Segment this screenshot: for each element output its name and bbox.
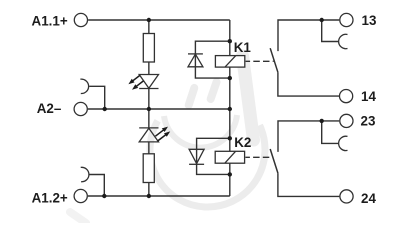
terminal 23 — [340, 114, 353, 127]
svg-text:K1: K1 — [234, 40, 252, 55]
socket contact above A1.2 — [81, 167, 89, 181]
terminal A1.1+ — [74, 13, 87, 26]
actuation link K2 (dashed) — [245, 156, 273, 158]
terminal A1.2+ — [74, 189, 87, 202]
relay coil K2 — [215, 151, 244, 163]
resistor R1 — [143, 34, 154, 63]
wire K2 diode loop — [197, 138, 230, 174]
wire contact K1 bottom lead to terminal 14 — [278, 72, 339, 96]
wire bottom rail A1.2+ — [88, 195, 230, 197]
wire contact K1 top rail to terminal 13 — [278, 20, 339, 51]
junction bottom rail / R2 — [147, 194, 151, 198]
junction A2 / main bus — [228, 107, 232, 111]
resistor R2 — [143, 154, 154, 183]
wire A2 rail — [88, 108, 230, 110]
LED D1 light arrows — [132, 76, 140, 82]
terminal 14 — [340, 90, 353, 103]
junction top rail / R1 — [147, 18, 151, 22]
junction A2 / socket stub — [103, 107, 107, 111]
wire main vertical bus — [229, 20, 231, 196]
svg-text:23: 23 — [361, 114, 376, 129]
junction K1 loop bottom — [228, 76, 232, 80]
wire contact K2 bottom lead to terminal 24 — [278, 173, 340, 196]
svg-text:A1.2+: A1.2+ — [32, 191, 68, 206]
actuation link K1 (dashed) — [246, 60, 274, 62]
svg-text:A1.1+: A1.1+ — [32, 13, 68, 28]
wire top rail A1.1+ — [88, 19, 230, 21]
LED D2 — [139, 128, 158, 142]
diode V1 — [188, 54, 203, 67]
contact K1 blade — [270, 48, 278, 72]
terminal 24 — [340, 190, 353, 203]
wire terminal 13 socket stub — [322, 20, 339, 42]
junction rail 23 / socket stub — [320, 119, 324, 123]
junction rail 13 / socket stub — [320, 18, 324, 22]
wire A2 rail to LED2 — [148, 109, 150, 128]
wire resistor column upper — [148, 20, 150, 34]
LED D2 light arrows — [155, 129, 164, 136]
wire LED1 to A2 rail — [148, 89, 150, 110]
wire A1.2 socket stub — [90, 175, 105, 197]
wire R1 to LED1 — [148, 62, 150, 75]
contact K2 blade — [270, 149, 278, 173]
terminal A2- — [74, 102, 87, 115]
relay coil K1 — [215, 56, 244, 68]
junction K1 loop top — [228, 39, 232, 43]
svg-text:K2: K2 — [234, 135, 251, 150]
socket contact at 23 — [339, 136, 348, 150]
watermark logo — [70, 56, 265, 223]
svg-text:A2–: A2– — [37, 101, 62, 116]
wire K1 diode loop — [195, 41, 229, 78]
wire terminal 23 socket stub — [322, 121, 339, 143]
LED D1 — [139, 75, 158, 89]
svg-text:13: 13 — [362, 13, 377, 28]
terminal 13 — [340, 13, 353, 26]
wire LED2 to R2 — [148, 142, 150, 154]
svg-text:14: 14 — [361, 89, 376, 104]
wire contact K2 top rail to terminal 23 — [278, 121, 339, 152]
wire A2 socket stub — [89, 86, 105, 109]
socket contact at 13 — [339, 34, 348, 48]
wire R2 to bottom rail — [148, 183, 150, 197]
socket contact above A2 — [80, 79, 88, 93]
diode V2 — [189, 149, 204, 163]
svg-text:24: 24 — [361, 191, 376, 206]
junction A2 / LED column — [147, 107, 151, 111]
junction bottom rail / socket stub — [102, 194, 106, 198]
junction K2 loop top — [228, 136, 232, 140]
junction K2 loop bottom — [228, 172, 232, 176]
